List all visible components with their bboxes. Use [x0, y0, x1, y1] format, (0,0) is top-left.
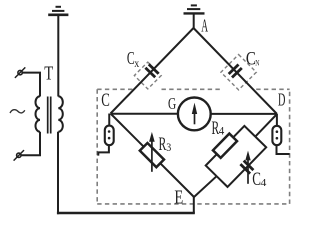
- wire: node A to CN: [194, 28, 278, 114]
- galvanometer G: [178, 98, 211, 131]
- capacitor C4 plates: [244, 161, 254, 171]
- svg-text:N: N: [255, 59, 259, 68]
- wire: galvanometer to node D: [211, 113, 277, 115]
- wire: node C to galvanometer: [111, 113, 179, 115]
- shield (dashed diamond) around Cx: [134, 62, 161, 89]
- svg-text:G: G: [168, 94, 176, 113]
- svg-text:D: D: [278, 89, 285, 109]
- wire: primary bottom lead: [21, 132, 40, 156]
- svg-text:x: x: [134, 56, 139, 70]
- transformer T primary winding (left, bulges left): [36, 96, 41, 131]
- svg-text:E: E: [174, 187, 183, 208]
- wire: node D to junction J1: [255, 114, 277, 137]
- spark gap below C (capsule with electrodes): [105, 126, 114, 146]
- wire: ground stem to node A: [193, 14, 195, 29]
- wire: node A to Cx: [111, 28, 194, 114]
- wire: node E down to bottom rail: [193, 196, 195, 214]
- ground (left, above transformer secondary): [48, 7, 68, 15]
- capacitor Cx plates: [149, 64, 159, 74]
- resistor R3 (variable) box: [140, 143, 164, 167]
- transformer T secondary winding (right, bulges right): [58, 96, 63, 131]
- svg-text:C: C: [101, 90, 110, 111]
- spark gap below D (capsule with electrodes): [272, 126, 281, 145]
- wire: node D down to spark gap: [276, 114, 278, 126]
- shield box (dashed) around bridge: [97, 89, 289, 204]
- wire: secondary bottom lead down to bottom rail: [57, 132, 59, 215]
- arrow of R3: [151, 140, 153, 172]
- wire: node C to node E (arm with R3): [111, 114, 195, 198]
- svg-text:3: 3: [166, 140, 171, 154]
- ground at node A: [184, 5, 205, 13]
- transformer T core (two bars): [47, 97, 49, 134]
- wire: primary top lead: [22, 73, 40, 97]
- svg-text:T: T: [44, 63, 53, 85]
- shield (dashed diamond) around CN: [221, 55, 256, 90]
- arrow of C4 (variable): [247, 159, 249, 184]
- wire: spark gap to shield (right): [277, 145, 290, 154]
- svg-text:A: A: [201, 16, 208, 36]
- wire: lower branch J1-Rc to C4: [217, 137, 267, 187]
- wire: spark gap to shield (left): [98, 145, 109, 155]
- terminal (lower supply lead): circle with diagonal stroke: [17, 153, 21, 157]
- resistor R4 box: [213, 134, 237, 158]
- wire: ground stem / transformer secondary top lead: [57, 16, 59, 97]
- capacitor CN plates: [229, 65, 239, 75]
- terminal (upper supply lead): circle with diagonal stroke: [18, 70, 22, 74]
- wire: node C down to spark gap: [108, 114, 110, 127]
- wire: junction J2 to node E: [194, 176, 217, 197]
- AC source ~: [10, 110, 25, 113]
- wire: upper branch J1-T-L-J2 (R4 branch): [206, 126, 256, 176]
- svg-text:4: 4: [219, 123, 225, 137]
- wire: bottom rail to node E: [57, 212, 195, 215]
- svg-text:4: 4: [260, 177, 267, 189]
